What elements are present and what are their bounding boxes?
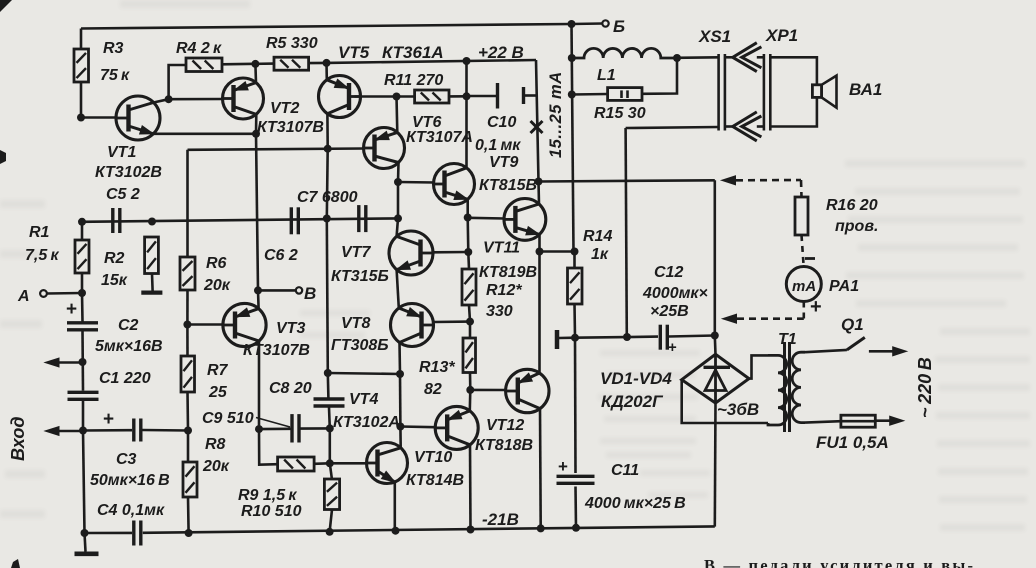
wire C10 row left (467, 95, 497, 98)
node VT8 collector junction (396, 370, 404, 378)
label +22V (478, 43, 524, 62)
resistor R10 (324, 479, 339, 510)
wire input col C2 (81, 293, 84, 322)
resistor R2 (101, 237, 158, 289)
node VT12 base junction (466, 386, 474, 394)
wire R1 top stub (81, 222, 84, 240)
wire XS1 bottom gap (725, 125, 734, 128)
wire y149 row to VT6 base (188, 149, 364, 150)
svg-text:20к: 20к (202, 458, 230, 475)
svg-text:XS1: XS1 (698, 27, 731, 46)
wire R12 bottom stub (469, 305, 470, 322)
wire R2 bottom stub (151, 274, 154, 291)
wire VT9 emitter down (466, 199, 469, 217)
node L1 right junction (673, 54, 681, 62)
wire VT1 collector to node (154, 99, 169, 102)
wire VT3 base (187, 323, 223, 326)
ground R2 (141, 291, 162, 295)
wire R7 bottom stub (186, 392, 189, 431)
svg-text:4000мк×: 4000мк× (642, 285, 708, 302)
resistor R1 (25, 224, 89, 273)
wire R14 stubs (573, 252, 576, 338)
connector XP1 (764, 26, 798, 131)
svg-text:+: + (810, 296, 822, 318)
wire VT2 collector down (255, 114, 258, 133)
terminal B output circle (602, 17, 625, 36)
svg-text:КТ361А: КТ361А (382, 43, 444, 62)
wire VT5 base to R11 (355, 95, 415, 98)
wire R15 right corner (642, 58, 677, 94)
svg-text:VD1-VD4: VD1-VD4 (600, 369, 672, 388)
transistor VT6 (364, 114, 473, 169)
wire rail left (85, 532, 133, 535)
wire VT3 collector down (258, 341, 261, 429)
resistor R3 (74, 40, 130, 84)
speaker BA1 (812, 76, 882, 108)
wire x327 row to VT8c (328, 373, 400, 374)
fuse FU1 (816, 415, 889, 452)
capacitor C3 (90, 409, 170, 489)
wire output col (572, 24, 574, 252)
wire VT4 collector col (399, 427, 402, 448)
transistor VT11 (479, 199, 546, 282)
wire top rail (81, 24, 572, 29)
wire VT5 emitter stub (325, 63, 328, 80)
node C8 bottom junction (326, 424, 334, 432)
node VT1 emitter / VT2 collector (252, 130, 260, 138)
node VT5 collector junction (324, 145, 332, 153)
svg-text:КТ815В: КТ815В (479, 177, 537, 194)
node rail ground junction (81, 529, 89, 537)
resistor R7 (181, 356, 229, 401)
svg-text:L1: L1 (597, 67, 616, 84)
node R15 left junction (568, 91, 576, 99)
svg-text:+: + (103, 409, 114, 430)
wire speaker return row (626, 127, 719, 128)
node C9 left junction (255, 425, 263, 433)
chevron bottom (733, 112, 762, 141)
label R10 value (241, 503, 302, 520)
svg-text:КТ315Б: КТ315Б (331, 268, 389, 285)
node VT10c rail junction (467, 526, 475, 534)
svg-text:+: + (66, 299, 77, 320)
resistor R4 (176, 40, 222, 72)
svg-text:С11: С11 (611, 462, 639, 479)
svg-text:75 к: 75 к (100, 67, 130, 84)
wire VT8 collector down (398, 343, 401, 375)
resistor R5 (266, 35, 318, 70)
svg-text:VT11: VT11 (483, 240, 520, 257)
svg-text:25: 25 (208, 384, 228, 401)
node C7 right junction (394, 214, 402, 222)
capacitor C5 (106, 186, 140, 233)
svg-text:+22 В: +22 В (478, 43, 524, 62)
svg-text:FU1 0,5А: FU1 0,5А (816, 433, 889, 452)
wire VT8c col down (399, 374, 402, 427)
connector XS1 (698, 27, 731, 131)
svg-text:VT10: VT10 (414, 449, 452, 466)
wire chevron top right (757, 56, 764, 59)
svg-text:VT5: VT5 (338, 43, 370, 62)
dashed arrow to psu top (722, 176, 802, 185)
svg-text:C10: C10 (487, 114, 516, 131)
svg-text:R15 30: R15 30 (594, 105, 646, 122)
wire C3 row right (143, 429, 189, 432)
wire VT3c corner to R9 (259, 429, 278, 465)
svg-text:C2: C2 (118, 317, 139, 334)
svg-text:КТ3102А: КТ3102А (333, 414, 400, 431)
node input tap1 (79, 358, 87, 366)
wire VT10 emitter up (468, 390, 471, 411)
wire chevron bottom right (757, 125, 764, 128)
wire VT5c col down (325, 149, 329, 219)
label 220V (915, 357, 935, 418)
wire C6C7 node down to C8 (327, 219, 328, 374)
wire bridge AC left (682, 380, 768, 423)
wire C8 bottom stub (328, 408, 331, 429)
wire input col to rail (83, 431, 85, 534)
ground main (75, 533, 99, 554)
wire VT12 base (470, 389, 506, 392)
wire bottom rail (143, 526, 715, 532)
svg-text:R13*: R13* (419, 359, 455, 376)
wire B terminal top (572, 22, 603, 25)
terminal B circle (296, 284, 316, 303)
svg-text:КТ818В: КТ818В (475, 437, 533, 454)
node speaker return junction (623, 333, 631, 341)
svg-text:4000 мк×25 В: 4000 мк×25 В (584, 495, 686, 512)
svg-text:~ 220 В: ~ 220 В (915, 357, 935, 418)
capacitor C11 (557, 457, 686, 512)
capacitor C12 (642, 264, 708, 356)
switch Q1 (841, 315, 865, 350)
svg-text:VT2: VT2 (270, 100, 299, 117)
wire C9 right stub (301, 427, 330, 430)
wire switch arrow (869, 347, 907, 356)
svg-text:КД202Г: КД202Г (601, 392, 664, 411)
node R12/R13 junction (466, 318, 474, 326)
wire VT11 base (468, 217, 505, 220)
label plus PA1 (810, 296, 822, 318)
transistor VT5 (319, 43, 444, 118)
node VT4e rail junction (392, 527, 400, 535)
wire C8 top stub (326, 373, 329, 398)
svg-text:С5 2: С5 2 (106, 186, 140, 203)
svg-text:В: В (304, 284, 316, 303)
node VT12 emitter junction (536, 248, 544, 256)
svg-text:+: + (558, 457, 568, 476)
wire VT10 base (400, 425, 434, 428)
svg-text:7,5 к: 7,5 к (25, 247, 59, 264)
svg-text:А: А (17, 288, 30, 305)
svg-text:R3: R3 (103, 40, 124, 57)
transistor VT1 (95, 96, 162, 181)
node C10/R11 top junction (463, 57, 471, 65)
terminal A circle (17, 288, 47, 305)
wire VT6 collector down (397, 163, 400, 183)
wire y337 row (575, 337, 658, 338)
wire R5 to +22V node (309, 62, 327, 65)
capacitor C8 (269, 380, 345, 406)
wire collector node up to R4 (169, 65, 186, 99)
scan artifact top-left corner (0, 0, 12, 12)
svg-text:-21В: -21В (482, 510, 519, 529)
capacitor plate bar (557, 330, 575, 349)
svg-text:С4 0,1мк: С4 0,1мк (97, 502, 165, 519)
wire VT11 emitter down (538, 234, 541, 251)
wire fuse arrow (875, 416, 903, 425)
wire VT12e to R14 row (540, 250, 575, 253)
wire y181 psu row (539, 180, 715, 181)
svg-text:R10 510: R10 510 (241, 503, 302, 520)
wire C12 right stub (669, 336, 715, 337)
svg-text:R8: R8 (205, 436, 226, 453)
node R2 top junction (148, 218, 156, 226)
svg-text:Т1: Т1 (778, 331, 797, 348)
svg-text:КТ819В: КТ819В (479, 264, 537, 281)
node C3 left junction (79, 427, 87, 435)
capacitor C7 (297, 189, 366, 232)
wire C3 row left (83, 429, 132, 432)
scan artifact bottom-left (11, 559, 20, 568)
capacitor C9 (202, 410, 299, 443)
meter PA1 (786, 267, 859, 302)
svg-text:С7 6800: С7 6800 (297, 189, 358, 206)
svg-text:Б: Б (613, 17, 625, 36)
svg-text:ХР1: ХР1 (765, 26, 798, 45)
wire VT12 emitter up (538, 252, 541, 374)
svg-text:VT1: VT1 (107, 144, 136, 161)
svg-text:РА1: РА1 (829, 278, 859, 295)
dashed arrow to psu mid (723, 314, 804, 323)
node R11 left junction (393, 93, 401, 101)
wire R11 right stub (449, 95, 467, 98)
caption bottom (704, 556, 975, 568)
wire VT9 base (398, 181, 435, 184)
transistor VT12 (475, 369, 549, 454)
wire C1 to C3 node (82, 401, 85, 431)
wire R3 to VT1 base node (80, 82, 83, 118)
wire +22V rail (327, 60, 537, 63)
wire XS1 top gap (725, 56, 734, 59)
capacitor C10 (475, 83, 524, 154)
node x327/374 junction (324, 369, 332, 377)
wire VT7 emitter to VT8 (397, 270, 399, 308)
svg-text:КТ3107В: КТ3107В (257, 119, 324, 136)
dashed R16 col (800, 180, 803, 197)
node B terminal junction (254, 286, 262, 294)
node VT11 collector junction (535, 178, 543, 186)
svg-text:R1: R1 (29, 224, 50, 241)
wire primary bottom (805, 421, 841, 422)
svg-text:R9 1,5 к: R9 1,5 к (238, 487, 297, 504)
transistor VT2 (223, 78, 324, 136)
wire B terminal (258, 289, 296, 292)
node R11 right junction (463, 92, 471, 100)
wire R7 (186, 325, 189, 357)
wire VT4 base (330, 462, 367, 465)
resistor R14 (568, 228, 613, 304)
svg-text:15к: 15к (101, 272, 128, 289)
wire VT7 collector up (397, 218, 398, 236)
svg-text:VT3: VT3 (276, 320, 305, 337)
wire R13 top stub (469, 322, 472, 338)
wire VT2c emitters col (256, 134, 258, 291)
node VT9 base junction (394, 178, 402, 186)
svg-text:R11 270: R11 270 (384, 72, 443, 89)
node VT1 base junction (77, 114, 85, 122)
svg-text:С8 20: С8 20 (269, 380, 312, 397)
svg-text:С6 2: С6 2 (264, 247, 298, 264)
wire primary top (805, 350, 847, 352)
wire bridge AC right (749, 355, 768, 378)
wire C11 col (574, 338, 577, 473)
node PSU plus junction (711, 332, 719, 340)
wire XP1 to speaker bottom (770, 97, 817, 126)
node L1 left junction (568, 54, 576, 62)
svg-text:R16 20: R16 20 (826, 197, 878, 214)
node C11 rail junction (572, 524, 580, 532)
wire R10 bottom stub (330, 510, 332, 532)
scan artifact left edge (0, 150, 6, 164)
node R10 rail junction (326, 528, 334, 536)
node B output junction (568, 20, 576, 28)
wire R3 top stub (80, 29, 83, 50)
node R8 rail junction (185, 529, 193, 537)
wire VT4 emitter down (393, 482, 396, 531)
svg-text:VT9: VT9 (489, 154, 518, 171)
arrow input tap1 (45, 358, 83, 367)
svg-text:VT8: VT8 (341, 315, 370, 332)
svg-text:R6: R6 (206, 255, 227, 272)
svg-text:15...25 тА: 15...25 тА (547, 71, 565, 158)
node C6/C7 mid junction (323, 215, 331, 223)
wire R4 to R5 row (222, 62, 274, 65)
wire VT8 base (434, 320, 470, 323)
node R14 bottom junction (571, 334, 579, 342)
svg-text:VT7: VT7 (341, 244, 371, 261)
svg-text:В — педали усилителя и вы-: В — педали усилителя и вы- (704, 556, 975, 568)
node R9/R10/VT4 junction (326, 459, 334, 467)
wire C11 bottom stub (574, 487, 577, 528)
svg-text:С12: С12 (654, 264, 683, 281)
dashed R16 to PA1 (802, 235, 804, 264)
wire VT11 collector up (537, 182, 540, 205)
svg-text:R5 330: R5 330 (266, 35, 318, 52)
node VT2 emitter junction (251, 60, 259, 68)
svg-text:ГТ308Б: ГТ308Б (331, 337, 389, 354)
svg-text:R7: R7 (207, 362, 229, 379)
transistor VT4 (333, 391, 408, 484)
wire R8 stubs (187, 431, 190, 534)
transformer T1 core (785, 342, 790, 432)
svg-text:20к: 20к (203, 277, 231, 294)
node VT5 emitter junction (323, 59, 331, 67)
wire VT10 collector down (469, 445, 472, 530)
label Vkhod (8, 417, 28, 461)
inductor L1 (572, 48, 677, 84)
wire VT9 collector up (465, 96, 468, 168)
capacitor C6 (264, 207, 298, 264)
transformer T1 secondary (768, 331, 797, 425)
wire R1 bottom stub (81, 273, 84, 293)
resistor R12 (462, 269, 522, 320)
wire XP1 to speaker top (770, 57, 817, 85)
wire R13 bottom stub (469, 373, 472, 390)
label minus PA1 (805, 257, 815, 260)
wire +22 col with X (536, 60, 539, 182)
resistor R11 (384, 72, 449, 103)
resistor R16 (795, 197, 878, 235)
resistor R13 (419, 338, 476, 398)
transformer T1 primary (792, 352, 805, 422)
measure point X (531, 121, 543, 133)
resistor R8 (183, 436, 230, 497)
label -21V (482, 510, 519, 529)
wire VT7 base node col (466, 218, 469, 253)
svg-text:R12*: R12* (486, 282, 522, 299)
wire R6 col corner down (186, 150, 189, 257)
capacitor C1 (68, 370, 151, 399)
wire R10 top stub (330, 463, 332, 479)
svg-text:Вход: Вход (8, 417, 28, 461)
svg-text:КТ3107В: КТ3107В (243, 342, 310, 359)
node VT7 base junction (464, 248, 472, 256)
node VT12c rail junction (537, 524, 545, 532)
wire VT1 base (81, 116, 117, 119)
wire VT7 base (434, 251, 469, 254)
wire VT3 emitter up (257, 290, 260, 308)
capacitor C4 (97, 502, 165, 546)
svg-text:R2: R2 (104, 250, 125, 267)
wire C2 to C1 (81, 331, 84, 391)
wire C8 bottom to R9 node (328, 428, 331, 463)
svg-text:пров.: пров. (835, 218, 878, 235)
transistor VT3 (223, 303, 310, 359)
wire R15 row left (572, 93, 608, 96)
node R14 top junction (571, 248, 579, 256)
svg-text:КТ3107А: КТ3107А (406, 129, 473, 146)
capacitor C2 (66, 299, 163, 355)
wire R6 bottom stub (186, 290, 189, 325)
wire C5C6C7 row (82, 218, 398, 221)
svg-text:0,1 мк: 0,1 мк (475, 137, 521, 154)
wire R9 right stub (314, 462, 330, 465)
node R7 top junction (183, 321, 191, 329)
arrow input tap2 (45, 427, 83, 436)
node R1 top junction (78, 218, 86, 226)
svg-text:+: + (668, 339, 677, 356)
wire R11 node to +22 rail (465, 61, 468, 96)
svg-text:R14: R14 (583, 228, 612, 245)
svg-text:КТ814В: КТ814В (406, 472, 464, 489)
wire VT2 emitter stub (254, 64, 257, 83)
resistor R9 (238, 457, 314, 504)
svg-text:КТ3102В: КТ3102В (95, 164, 162, 181)
node VT10 base junction (396, 423, 404, 431)
node R8 top junction (184, 427, 192, 435)
wire speaker return col (626, 128, 627, 337)
svg-text:50мк×16 В: 50мк×16 В (90, 472, 170, 489)
svg-text:330: 330 (486, 303, 513, 320)
node VT1 collector junction (165, 95, 173, 103)
svg-text:С3: С3 (116, 451, 137, 468)
svg-text:Q1: Q1 (841, 315, 864, 334)
transistor VT9 (434, 154, 538, 205)
transistor VT8 (331, 304, 434, 355)
wire VT12 collector down (539, 409, 542, 529)
svg-text:тА: тА (792, 278, 816, 295)
